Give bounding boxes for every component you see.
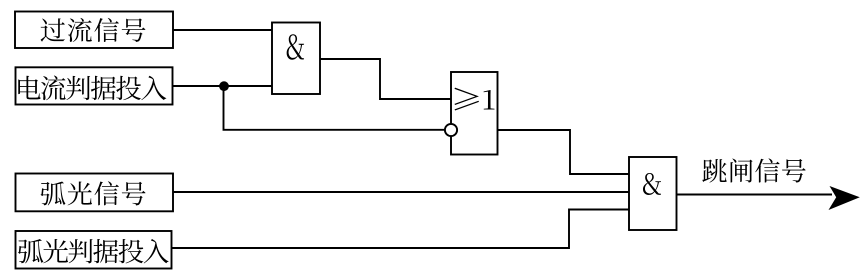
input box 弧光判据投入 — [16, 231, 172, 269]
input box 过流信号 — [15, 12, 173, 49]
wire U1 output to U2 input — [320, 59, 451, 99]
inversion bubble on U2 input — [445, 124, 457, 136]
wire 电流判据投入 to U1 input B — [173, 85, 273, 87]
wire U3 output to arrow 跳闸信号 — [677, 194, 833, 196]
label text 过流信号 — [41, 18, 146, 42]
wire U2 output to U3 input A — [498, 130, 630, 174]
input box 电流判据投入 — [16, 67, 173, 104]
junction node dot — [219, 81, 229, 91]
U1 symbol & — [287, 34, 304, 60]
OR gate U2 (>=1) — [451, 72, 498, 155]
AND gate U1 — [272, 23, 320, 95]
label text 弧光信号 — [40, 181, 145, 205]
U2 symbol >=1 — [454, 88, 494, 111]
output label 跳闸信号 — [702, 158, 805, 182]
U3 symbol & — [643, 173, 661, 195]
input box 弧光信号 — [16, 174, 174, 212]
wire junction branch down to U2 inverted input — [224, 86, 445, 130]
wire 弧光判据投入 to U3 input C — [172, 210, 630, 249]
AND gate U3 — [629, 157, 677, 230]
arrowhead of output 跳闸信号 — [829, 186, 860, 210]
wire 弧光信号 to U3 input B — [173, 191, 629, 193]
wire 过流信号 to U1 input A — [173, 29, 272, 31]
label text 弧光判据投入 — [18, 239, 169, 263]
label text 电流判据投入 — [18, 76, 166, 101]
